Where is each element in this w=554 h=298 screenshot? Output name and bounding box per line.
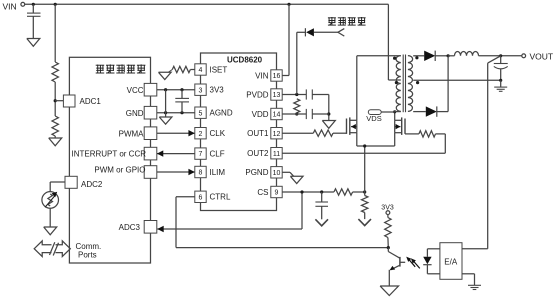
svg-text:3V3: 3V3 — [210, 86, 225, 95]
svg-text:VIN: VIN — [255, 71, 269, 80]
svg-text:PWM or GPIO: PWM or GPIO — [94, 166, 145, 175]
svg-text:7: 7 — [199, 151, 203, 158]
svg-text:PGND: PGND — [245, 168, 268, 177]
svg-text:Ports: Ports — [78, 250, 97, 259]
svg-text:PVDD: PVDD — [246, 90, 268, 99]
svg-text:OUT1: OUT1 — [247, 129, 269, 138]
svg-text:CLF: CLF — [210, 150, 225, 159]
svg-text:ISET: ISET — [210, 65, 228, 74]
svg-text:VOUT: VOUT — [530, 51, 554, 61]
svg-text:11: 11 — [273, 151, 280, 158]
svg-text:13: 13 — [273, 92, 281, 99]
svg-text:6: 6 — [199, 194, 203, 201]
svg-text:10: 10 — [273, 170, 281, 177]
svg-text:INTERRUPT or CCR: INTERRUPT or CCR — [71, 150, 146, 159]
svg-text:3: 3 — [199, 87, 203, 94]
svg-text:16: 16 — [273, 73, 281, 80]
svg-text:ADC1: ADC1 — [80, 97, 102, 106]
svg-text:VCC: VCC — [127, 86, 144, 95]
svg-text:2: 2 — [199, 131, 203, 138]
svg-text:14: 14 — [273, 112, 281, 119]
svg-text:9: 9 — [275, 190, 279, 197]
svg-text:PWMA: PWMA — [119, 129, 145, 138]
svg-text:VIN: VIN — [3, 2, 17, 12]
svg-text:GND: GND — [126, 109, 144, 118]
svg-text:VDS: VDS — [366, 114, 381, 123]
svg-text:OUT2: OUT2 — [247, 149, 269, 158]
svg-text:AGND: AGND — [210, 109, 233, 118]
svg-text:CTRL: CTRL — [210, 193, 231, 202]
svg-text:CS: CS — [257, 188, 268, 197]
svg-text:ADC2: ADC2 — [81, 180, 103, 189]
svg-text:12: 12 — [273, 131, 281, 138]
svg-text:4: 4 — [199, 67, 203, 74]
svg-text:UCD8620: UCD8620 — [227, 56, 263, 65]
svg-text:ILIM: ILIM — [210, 168, 226, 177]
svg-text:VDD: VDD — [252, 110, 269, 119]
svg-text:E/A: E/A — [444, 257, 458, 266]
svg-text:8: 8 — [199, 170, 203, 177]
svg-text:CLK: CLK — [210, 129, 226, 138]
svg-text:5: 5 — [199, 110, 203, 117]
svg-text:ADC3: ADC3 — [119, 223, 141, 232]
